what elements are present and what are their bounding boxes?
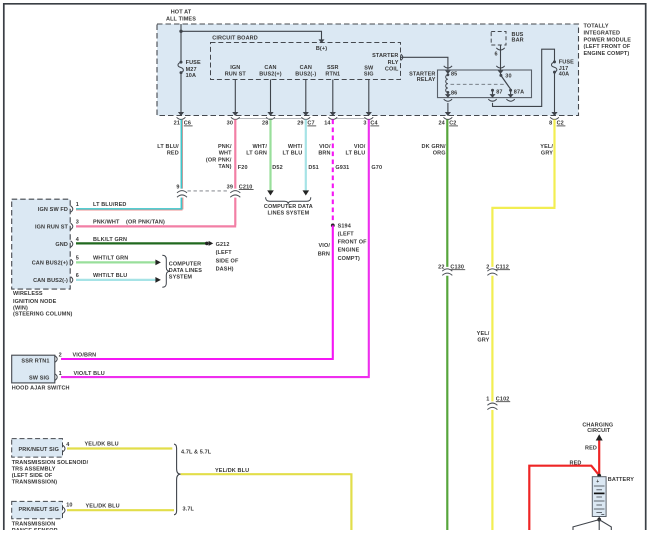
svg-text:PRK/NEUT SIG: PRK/NEUT SIG xyxy=(18,447,59,453)
arrowhead at B(+) pin xyxy=(319,39,325,43)
wire: DK GRN/ORG from pin 24 to C130 xyxy=(422,120,448,267)
svg-text:BUS2(-): BUS2(-) xyxy=(295,72,316,78)
connector C130 pin 22 xyxy=(438,265,465,276)
STARTER RELAY label xyxy=(409,71,436,83)
TIPM module box (TOTALLY INTEGRATED POWER MODULE) xyxy=(157,24,579,116)
splice S194 xyxy=(331,223,367,261)
svg-text:(LEFT: (LEFT xyxy=(338,232,355,238)
wire: B+ branch to circuit board B(+) pin xyxy=(181,31,322,39)
svg-text:SIDE OF: SIDE OF xyxy=(216,258,239,264)
fuse J17 40A xyxy=(551,60,574,78)
svg-text:87A: 87A xyxy=(514,90,524,96)
junction dot B+ xyxy=(179,30,182,33)
svg-text:PNK/: PNK/ xyxy=(218,144,232,150)
svg-text:VIO/: VIO/ xyxy=(354,144,366,150)
svg-text:DASH): DASH) xyxy=(216,266,234,272)
arrow to computer data lines (D51) xyxy=(303,190,310,195)
svg-text:RUN ST: RUN ST xyxy=(225,72,247,78)
svg-text:6: 6 xyxy=(76,273,79,279)
svg-text:RELAY: RELAY xyxy=(417,77,436,83)
svg-text:YEL/DK BLU: YEL/DK BLU xyxy=(85,442,119,448)
svg-text:CIRCUIT: CIRCUIT xyxy=(587,428,611,434)
wire: negative branch left xyxy=(573,520,599,530)
svg-text:COMPT): COMPT) xyxy=(338,256,360,262)
arrowhead relay 30 entry xyxy=(498,70,504,74)
svg-text:COIL: COIL xyxy=(385,67,399,73)
svg-text:VIO/BRN: VIO/BRN xyxy=(73,353,97,359)
svg-text:LT GRN: LT GRN xyxy=(246,151,267,157)
wire: contact 87A stub xyxy=(510,90,512,94)
connector C4 group joiner line xyxy=(337,118,365,120)
svg-text:CAN: CAN xyxy=(300,65,312,71)
svg-text:TRANSMISSION): TRANSMISSION) xyxy=(12,480,58,486)
wire: CAN BUS2(-) pin 29 xyxy=(305,80,307,113)
svg-text:YEL/: YEL/ xyxy=(477,331,490,337)
svg-text:STARTER: STARTER xyxy=(372,53,398,59)
WIN module box (WIRELESS IGNITION NODE) xyxy=(12,199,70,289)
svg-text:S194: S194 xyxy=(338,223,352,229)
wire: contact 87 output xyxy=(492,90,494,94)
wire: BLK/LT GRN from WIN pin 4 to G212 xyxy=(76,237,206,243)
hood ajar switch pin labels xyxy=(21,358,49,381)
WIN pin labels xyxy=(32,207,69,284)
wire: PNK/WHT from C210 to WIN pin 3 xyxy=(76,198,236,227)
wire: DK GRN/ORG below C130 to bottom xyxy=(446,276,448,530)
svg-text:RED: RED xyxy=(585,445,597,451)
svg-text:B(+): B(+) xyxy=(316,46,327,52)
svg-text:D52: D52 xyxy=(272,165,282,171)
relay coil (pins 85-86) xyxy=(446,72,458,97)
svg-text:1: 1 xyxy=(76,202,79,208)
transmission range sensor box xyxy=(12,501,63,518)
svg-text:30: 30 xyxy=(227,121,233,127)
svg-text:CIRCUIT BOARD: CIRCUIT BOARD xyxy=(212,36,258,42)
wire: WHT/LT BLU from WIN pin 6 xyxy=(76,273,155,280)
arrowhead pin 21 xyxy=(178,112,184,116)
svg-text:10: 10 xyxy=(66,503,72,509)
wire: IGN RUN ST pin 30 xyxy=(234,80,236,113)
svg-text:SIG: SIG xyxy=(364,72,374,78)
svg-text:1: 1 xyxy=(486,397,489,403)
svg-text:IGNITION NODE: IGNITION NODE xyxy=(13,299,57,305)
svg-text:3.7L: 3.7L xyxy=(183,507,195,513)
brace joining transmission wires xyxy=(174,444,181,515)
range sensor pin bracket 10 xyxy=(63,503,73,514)
wire: YEL/GRY from C112 to C102 xyxy=(477,276,493,402)
svg-text:WHT/LT BLU: WHT/LT BLU xyxy=(93,273,127,279)
wire: 87 to fuse J17 riser xyxy=(493,49,555,106)
svg-text:30: 30 xyxy=(505,73,511,79)
svg-text:9: 9 xyxy=(176,184,179,190)
wire: YEL/GRY below C102 to bottom xyxy=(491,410,493,530)
connector C112 pin 2 xyxy=(486,265,510,276)
svg-text:28: 28 xyxy=(262,121,268,127)
svg-text:ORG: ORG xyxy=(433,151,446,157)
svg-text:RTN1: RTN1 xyxy=(325,72,340,78)
svg-text:22: 22 xyxy=(438,265,444,271)
wire: VIO/BRN from S194 to hood ajar switch xyxy=(61,225,334,359)
svg-text:40A: 40A xyxy=(559,72,569,78)
wire: RED feed from left xyxy=(529,460,599,530)
BUS BAR label xyxy=(512,32,524,43)
pin bracket: starter rly coil output of circuit board xyxy=(401,54,403,60)
pin 24 C2 label xyxy=(438,121,458,127)
svg-text:2: 2 xyxy=(59,353,62,359)
circuit board pin labels xyxy=(225,65,247,78)
fuse M27 10A xyxy=(178,60,201,79)
wire label PNK/WHT (OR PNK/TAN) xyxy=(93,220,165,226)
svg-text:SSR: SSR xyxy=(327,65,339,71)
solenoid pin bracket 4 xyxy=(63,442,70,452)
svg-text:BRN: BRN xyxy=(318,151,330,157)
svg-text:WHT/: WHT/ xyxy=(288,144,303,150)
connector C102 pin 1 xyxy=(486,397,510,410)
connector cup at bus bar xyxy=(496,48,504,50)
wire: B+ feed from top into fuse M27 xyxy=(180,24,182,62)
brace under data line arrows xyxy=(266,197,311,204)
dashed connector joiner C210 xyxy=(188,190,230,192)
svg-text:G70: G70 xyxy=(371,165,382,171)
svg-text:DK GRN/: DK GRN/ xyxy=(422,144,446,150)
svg-text:TRANSMISSION SOLENOID/: TRANSMISSION SOLENOID/ xyxy=(12,460,89,466)
wire: fuse J17 to pin 8 xyxy=(554,72,556,112)
svg-text:LT BLU/RED: LT BLU/RED xyxy=(93,202,126,208)
svg-text:8: 8 xyxy=(549,121,552,127)
svg-text:3: 3 xyxy=(363,121,366,127)
svg-text:VIO/: VIO/ xyxy=(319,144,331,150)
pin 8 C2 label xyxy=(549,121,565,127)
connector cup relay coil 85 entry xyxy=(444,66,452,68)
svg-text:HOOD AJAR SWITCH: HOOD AJAR SWITCH xyxy=(12,386,70,392)
connector cup pin 21 xyxy=(177,117,186,119)
svg-text:ENGINE COMPT): ENGINE COMPT) xyxy=(584,51,630,57)
svg-text:CAN: CAN xyxy=(264,65,276,71)
transmission solenoid box xyxy=(12,439,63,458)
svg-text:ENGINE: ENGINE xyxy=(338,248,360,254)
svg-text:FRONT OF: FRONT OF xyxy=(338,240,368,246)
svg-text:(LEFT FRONT OF: (LEFT FRONT OF xyxy=(584,44,631,50)
pin 3 C4 label xyxy=(363,121,379,127)
svg-text:1: 1 xyxy=(59,371,62,377)
svg-text:TAN): TAN) xyxy=(218,164,231,170)
svg-text:VIO/: VIO/ xyxy=(319,243,331,249)
wire: battery negative branches xyxy=(598,517,600,520)
svg-text:4.7L & 5.7L: 4.7L & 5.7L xyxy=(181,450,212,456)
wire: WHT/LT GRN D52 from pin 28 xyxy=(246,120,283,191)
svg-text:24: 24 xyxy=(438,121,445,127)
svg-text:WHT/: WHT/ xyxy=(252,144,267,150)
wire: SSR RTN1 pin 14 xyxy=(332,80,334,113)
wire: RED battery positive to charging circuit xyxy=(585,441,599,476)
svg-text:CAN BUS2(-): CAN BUS2(-) xyxy=(33,278,68,284)
connector cup relay 30 entry xyxy=(496,66,504,68)
wire: YEL/DK BLU combined run to bottom xyxy=(181,468,352,530)
node: CHARGING CIRCUIT xyxy=(582,422,613,434)
svg-text:RED: RED xyxy=(570,460,582,466)
ground splice G212 xyxy=(205,241,239,273)
svg-text:CAN BUS2(+): CAN BUS2(+) xyxy=(32,260,68,266)
transmission solenoid label xyxy=(12,460,89,486)
svg-text:F20: F20 xyxy=(238,165,248,171)
svg-text:2: 2 xyxy=(486,265,489,271)
relay contact 87A xyxy=(509,89,512,92)
connector C210 pin 9 arcs xyxy=(176,184,187,197)
svg-text:FUSE: FUSE xyxy=(559,60,574,66)
svg-text:WHT/LT GRN: WHT/LT GRN xyxy=(93,256,128,262)
hood ajar switch box xyxy=(12,355,55,383)
svg-text:VIO/LT BLU: VIO/LT BLU xyxy=(74,371,105,377)
svg-text:GND: GND xyxy=(55,242,68,248)
svg-text:FUSE: FUSE xyxy=(186,60,201,66)
svg-text:LT BLU: LT BLU xyxy=(283,151,303,157)
svg-text:BAR: BAR xyxy=(512,37,524,43)
svg-text:10A: 10A xyxy=(186,73,196,79)
svg-text:3: 3 xyxy=(76,220,79,226)
svg-text:G931: G931 xyxy=(335,165,349,171)
TIPM label xyxy=(584,24,632,58)
wire: bus bar pin 6 down to relay contact 30 xyxy=(500,45,502,75)
svg-text:M27: M27 xyxy=(186,67,197,73)
WIN label xyxy=(13,291,73,318)
svg-text:LT BLU: LT BLU xyxy=(346,151,366,157)
svg-text:6: 6 xyxy=(495,51,498,57)
svg-text:SYSTEM: SYSTEM xyxy=(169,275,193,281)
svg-text:TRANSMISSION: TRANSMISSION xyxy=(12,522,56,528)
svg-text:HOT AT: HOT AT xyxy=(171,10,192,16)
node: COMPUTER DATA LINES SYSTEM (left) xyxy=(169,262,202,281)
svg-text:COMPUTER: COMPUTER xyxy=(169,262,201,268)
svg-text:(OR PNK/TAN): (OR PNK/TAN) xyxy=(126,220,165,226)
svg-text:TOTALLY: TOTALLY xyxy=(584,24,609,30)
svg-text:(LEFT: (LEFT xyxy=(216,250,233,256)
svg-text:+: + xyxy=(596,479,599,485)
svg-text:(STEERING COLUMN): (STEERING COLUMN) xyxy=(13,312,73,318)
svg-text:WHT: WHT xyxy=(219,151,232,157)
node: HOT AT ALL TIMES xyxy=(166,10,196,23)
transmission range sensor label xyxy=(12,522,58,535)
pin 21 C6 label xyxy=(174,121,193,127)
svg-text:29: 29 xyxy=(297,121,303,127)
battery xyxy=(592,477,634,517)
pin 29 C7 label xyxy=(297,121,316,127)
svg-text:(WIN): (WIN) xyxy=(13,305,28,311)
relay switch blade 30 to 87A xyxy=(501,75,511,89)
starter relay box xyxy=(438,70,532,98)
hood ajar switch pin brackets xyxy=(55,353,62,381)
wire: YEL/GRY from pin 8 jog to C112 xyxy=(491,120,555,267)
wire: YEL/DK BLU from solenoid pin 4 xyxy=(67,442,172,449)
svg-text:BUS2(+): BUS2(+) xyxy=(259,72,281,78)
arrow to computer data lines (D52) xyxy=(267,190,274,195)
svg-text:39: 39 xyxy=(227,184,233,190)
node: COMPUTER DATA LINES SYSTEM (upper) xyxy=(264,204,313,216)
svg-text:85: 85 xyxy=(451,72,457,78)
svg-text:ALL TIMES: ALL TIMES xyxy=(166,17,196,23)
connector C210 pin 39 arcs xyxy=(227,184,254,197)
svg-text:G212: G212 xyxy=(216,242,230,248)
wire: circuit board to starter relay coil 85 xyxy=(401,57,448,70)
svg-text:RLY: RLY xyxy=(388,60,399,66)
brace computer data lines (left) xyxy=(162,255,170,287)
svg-text:14: 14 xyxy=(324,121,331,127)
wire: negative branch right xyxy=(599,520,611,530)
WIN pin brackets and numbers xyxy=(71,202,80,283)
junction dot battery negative xyxy=(597,518,601,522)
wire: VIO/BRN G931 dashed from pin 14 to splice S194 xyxy=(318,120,349,225)
svg-text:BATTERY: BATTERY xyxy=(608,477,634,483)
svg-text:87: 87 xyxy=(496,90,502,96)
arrow to charging circuit xyxy=(596,434,603,440)
junction dot battery positive xyxy=(597,474,601,478)
wire: LT BLU/RED from pin 21 to C210 xyxy=(157,120,182,189)
svg-text:21: 21 xyxy=(174,121,180,127)
svg-text:TRS ASSEMBLY: TRS ASSEMBLY xyxy=(12,467,56,473)
wire: VIO/LT BLU G70 from pin 3 to hood ajar switch xyxy=(61,120,382,378)
svg-text:SW SIG: SW SIG xyxy=(29,376,50,382)
svg-text:IGN: IGN xyxy=(230,65,240,71)
wire: relay coil 86 to pin 24 xyxy=(447,92,449,94)
wire: PNK/WHT from pin 30 to C210 xyxy=(206,120,248,189)
svg-text:PRK/NEUT SIG: PRK/NEUT SIG xyxy=(18,507,59,513)
arrow WHT/LT GRN to computer data lines xyxy=(155,260,161,266)
svg-text:LINES SYSTEM: LINES SYSTEM xyxy=(268,210,310,216)
svg-text:INTEGRATED: INTEGRATED xyxy=(584,31,621,37)
arrow WHT/LT BLU to computer data lines xyxy=(155,277,161,283)
svg-text:SSR RTN1: SSR RTN1 xyxy=(21,358,49,364)
svg-text:IGN RUN ST: IGN RUN ST xyxy=(35,224,68,230)
svg-text:5: 5 xyxy=(76,256,79,262)
svg-text:BLK/LT GRN: BLK/LT GRN xyxy=(93,237,127,243)
svg-text:YEL/DK BLU: YEL/DK BLU xyxy=(86,504,120,510)
svg-text:DATA LINES: DATA LINES xyxy=(169,268,202,274)
svg-text:LT BLU/: LT BLU/ xyxy=(157,144,179,150)
wire: YEL/DK BLU from range sensor pin 10 xyxy=(67,504,174,511)
svg-text:(LEFT SIDE OF: (LEFT SIDE OF xyxy=(12,473,53,479)
svg-text:(OR PNK/: (OR PNK/ xyxy=(206,157,232,163)
CIRCUIT BOARD box xyxy=(211,43,401,80)
svg-text:POWER MODULE: POWER MODULE xyxy=(584,37,632,43)
arrowhead relay coil 85 entry xyxy=(445,70,451,74)
svg-text:WIRELESS: WIRELESS xyxy=(13,291,43,297)
wire: LT BLU/RED from C210 to WIN pin 1 xyxy=(76,198,183,211)
svg-text:BRN: BRN xyxy=(318,251,330,257)
bus bar box xyxy=(491,32,506,46)
relay contact 87 xyxy=(491,89,494,92)
wire: WHT/LT BLU D51 from pin 29 xyxy=(283,120,319,191)
svg-text:86: 86 xyxy=(451,90,457,96)
svg-text:GRY: GRY xyxy=(477,338,489,344)
wire: negative branch center xyxy=(598,520,600,530)
svg-text:COMPUTER DATA: COMPUTER DATA xyxy=(264,204,313,210)
svg-text:GRY: GRY xyxy=(541,151,553,157)
wire: WHT/LT GRN from WIN pin 5 xyxy=(76,256,155,263)
relay contact 30 xyxy=(499,74,502,77)
svg-text:YEL/DK BLU: YEL/DK BLU xyxy=(215,468,249,474)
svg-text:PNK/WHT: PNK/WHT xyxy=(93,220,120,226)
dashed mechanical link coil to contacts xyxy=(451,83,505,85)
svg-text:IGN SW FD: IGN SW FD xyxy=(38,207,68,213)
svg-text:RED: RED xyxy=(167,151,179,157)
wire: fuse M27 output down to pin 21 xyxy=(180,73,182,113)
svg-text:D51: D51 xyxy=(308,165,318,171)
wire: SW SIG pin 3 xyxy=(368,80,370,113)
svg-text:YEL/: YEL/ xyxy=(540,144,553,150)
wire: CAN BUS2(+) pin 28 xyxy=(270,80,272,113)
connector C7 group joiner line xyxy=(239,118,302,120)
